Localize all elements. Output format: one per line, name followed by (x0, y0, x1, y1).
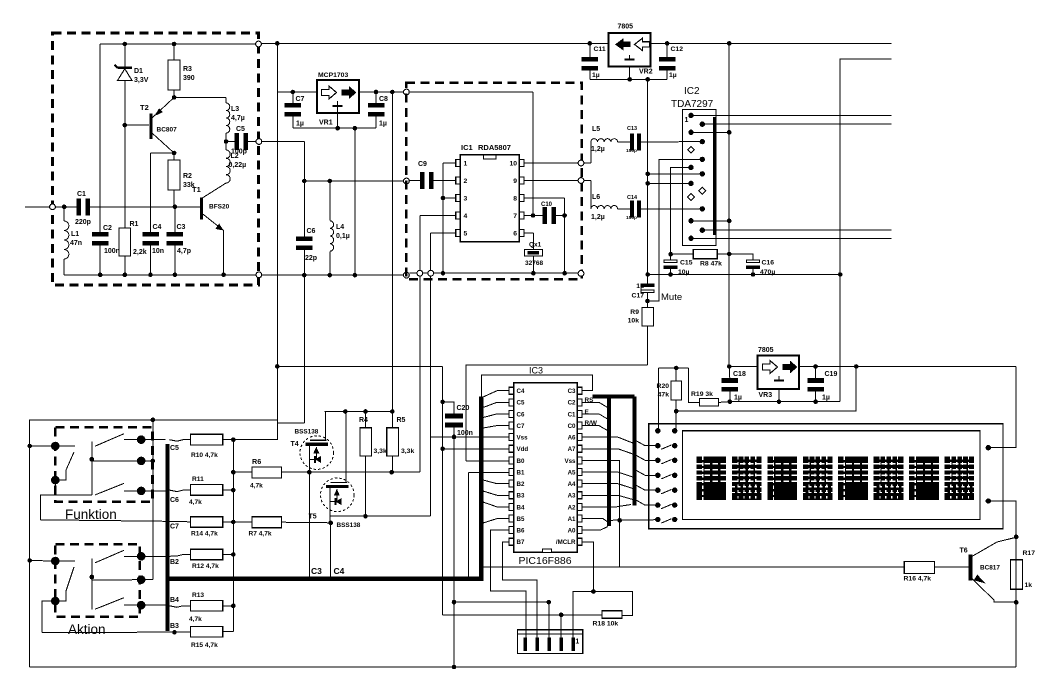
RF preamp dashed box (53, 33, 259, 285)
wire B5 fan (483, 519, 509, 523)
node LCD pin row 4 (655, 473, 660, 478)
svg-text:C6: C6 (307, 228, 316, 235)
svg-text:C9: C9 (418, 161, 427, 168)
capacitor C5 100p (226, 141, 235, 143)
wire LCD data row 5 (634, 484, 658, 490)
wire switch common vertical (152, 420, 154, 580)
resistor R3 390 (173, 44, 175, 60)
wire 7805 right to power stub (651, 42, 892, 44)
node RDA ground circle right (578, 271, 584, 277)
capacitor C17 1u (647, 275, 649, 284)
pin C6 IC3 (509, 410, 514, 417)
IC1 RDA5807 chip body (460, 155, 519, 242)
svg-text:C12: C12 (671, 46, 684, 53)
svg-text:C6: C6 (517, 411, 525, 418)
wire IC2 pin3 supply (691, 131, 729, 133)
wire A4 fan (582, 484, 633, 489)
pin B4 IC3 (509, 503, 514, 510)
svg-text:7805: 7805 (758, 347, 774, 354)
resistor R8 47k (671, 253, 694, 255)
pin 6 IC2 (700, 157, 705, 162)
crystal Qx1 32768 (524, 250, 542, 257)
node input terminal (50, 204, 56, 210)
pin 14 IC2 (700, 228, 705, 233)
svg-text:3,3V: 3,3V (134, 77, 149, 84)
pin A3 IC3 (577, 492, 582, 499)
svg-text:A4: A4 (568, 481, 576, 488)
svg-text:Vss: Vss (517, 435, 529, 442)
wire T2 base (125, 124, 149, 126)
wire C6 fan (483, 414, 509, 418)
svg-text:C13: C13 (627, 126, 637, 132)
pin B7 IC3 (509, 538, 514, 545)
resistor R20 47k (675, 368, 677, 381)
svg-text:Vss: Vss (564, 458, 576, 465)
microcontroller IC3 PIC16F886 (514, 383, 578, 553)
node LCD backlight cathode (986, 498, 991, 503)
wire bottom ground rail (30, 666, 1017, 668)
pin C7 IC3 (509, 422, 514, 429)
svg-text:3,3k: 3,3k (374, 448, 387, 455)
svg-text:C4: C4 (153, 224, 162, 231)
resistor R6 4,7k (233, 471, 252, 473)
svg-text:1,2µ: 1,2µ (591, 214, 605, 221)
pin 10 IC1 (519, 160, 524, 167)
svg-text:4,7k: 4,7k (189, 616, 202, 623)
pin B3 IC3 (509, 492, 514, 499)
svg-text:MCP1703: MCP1703 (318, 72, 348, 79)
pin 15 IC2 (688, 236, 693, 241)
svg-text:A6: A6 (568, 435, 576, 442)
svg-text:1µ: 1µ (296, 121, 304, 128)
wire IC2 pin6 mute (648, 159, 703, 301)
wire pin6 to crystal (524, 232, 534, 234)
svg-text:R10 4,7k: R10 4,7k (191, 452, 218, 459)
wire Aktion feed (30, 560, 56, 563)
wire bundle RS E RW trunk (593, 394, 635, 398)
svg-text:R20: R20 (657, 383, 670, 390)
wire 5V to ICSP pin2 (443, 614, 602, 616)
resistor R19 3k (688, 368, 699, 402)
svg-text:T2: T2 (140, 103, 149, 112)
pin 13 IC2 (688, 218, 693, 223)
wire C7 fan (483, 426, 509, 428)
wire A5 fan (582, 472, 633, 477)
wire A1 fan (582, 519, 610, 524)
node ground exit circle left box (256, 272, 262, 278)
svg-text:1: 1 (464, 161, 468, 168)
wire pin4 SDA (420, 215, 456, 217)
node C5 output circle (256, 139, 262, 145)
svg-text:4,7p: 4,7p (177, 248, 191, 255)
svg-text:B1: B1 (517, 469, 525, 476)
transistor T2 BC807 (149, 114, 152, 140)
svg-text:C14: C14 (627, 195, 638, 201)
pin 6 IC1 (519, 230, 524, 237)
capacitor C1 220p (76, 198, 81, 215)
wire C1 to T1 base (90, 206, 200, 208)
svg-text:A1: A1 (568, 516, 576, 523)
svg-text:R2: R2 (183, 173, 192, 180)
wire E fan (582, 414, 607, 419)
wire B7 to ICSP pin4 (503, 542, 538, 638)
wire A7 fan (582, 449, 633, 454)
wire keypad pullup feed (233, 423, 277, 440)
svg-text:1: 1 (575, 639, 579, 646)
pin A4 IC3 (577, 480, 582, 487)
capacitor C8 1u (375, 92, 377, 103)
wire B2 fan (483, 480, 509, 484)
wire pin5 SCL (431, 232, 456, 234)
pin A2 IC3 (577, 503, 582, 510)
wire IC2 pin2 speaker out (702, 123, 891, 125)
svg-text:C4: C4 (517, 388, 525, 395)
svg-text:L5: L5 (592, 126, 600, 133)
svg-text:1µ: 1µ (669, 72, 677, 79)
svg-text:R/W: R/W (585, 420, 598, 427)
wire ground stub power connector (840, 59, 891, 402)
node LCD pin row 6 (655, 502, 660, 507)
svg-text:5: 5 (464, 231, 468, 238)
resistor R11 4,7k row C6 (141, 490, 165, 492)
svg-text:Aktion: Aktion (68, 622, 106, 637)
svg-text:T4: T4 (291, 441, 299, 448)
antenna input wire (25, 206, 49, 208)
pin 1 IC1 (456, 160, 461, 167)
wire A2 fan (582, 505, 631, 507)
svg-text:D1: D1 (134, 68, 143, 75)
resistor R17 1k (1010, 560, 1022, 590)
svg-text:C20: C20 (457, 405, 470, 412)
svg-text:7: 7 (513, 213, 517, 220)
transistor T5 BSS138 (321, 478, 355, 512)
svg-text:4,7k: 4,7k (189, 499, 202, 506)
capacitor C13 150p (618, 141, 630, 143)
wire VR1 input (277, 91, 317, 93)
svg-text:B2: B2 (517, 481, 525, 488)
resistor R16 4,7k (904, 562, 934, 574)
svg-text:BSS138: BSS138 (295, 429, 319, 436)
svg-text:4,7µ: 4,7µ (231, 115, 245, 122)
pin Vss IC3 (577, 457, 582, 464)
wire IC2 pin14 speaker out (702, 229, 891, 231)
svg-text:C3: C3 (311, 566, 322, 576)
wire SCL lower (331, 515, 431, 517)
svg-text:A3: A3 (568, 493, 576, 500)
pin A0 IC3 (577, 527, 582, 534)
wire ground to ICSP pin3 (454, 601, 549, 603)
inductor L5 1,2u (584, 162, 591, 164)
wire 3V3 rail down (391, 92, 393, 412)
wire input to C1 (56, 206, 77, 208)
svg-text:PIC16F886: PIC16F886 (519, 555, 572, 567)
pin 3 IC2 (688, 130, 693, 135)
connector ICSP (518, 630, 583, 654)
wire pin1 ground (443, 162, 456, 164)
wire ground to bottom rail (453, 437, 455, 667)
svg-text:2: 2 (464, 178, 468, 185)
wire backlight control (483, 566, 904, 568)
pin Vss IC3 (509, 434, 514, 441)
wire keypad trunk (165, 444, 169, 631)
wire T4 drain corner (325, 411, 326, 413)
wire B4 fan (483, 502, 509, 507)
switch box Funktion (55, 427, 152, 501)
svg-text:R12 4,7k: R12 4,7k (192, 563, 219, 570)
pin B5 IC3 (509, 515, 514, 522)
wire A6 fan (582, 437, 633, 443)
capacitor C19 1u (815, 367, 817, 379)
pin 9 IC1 (519, 177, 524, 184)
svg-text:TDA7297: TDA7297 (671, 99, 714, 110)
wire 5V feed horizontal (277, 365, 442, 367)
wire IC2 pin9 input gnd (648, 182, 691, 184)
inductor L2 0,22u (225, 142, 227, 151)
wire ground feed down to keypad (304, 275, 306, 423)
pin 5 IC1 (456, 230, 461, 237)
wire IC2 pin15 speaker out (691, 237, 892, 239)
resistor R7 4,7k (233, 521, 252, 523)
switch box Aktion (55, 544, 140, 617)
svg-text:B4: B4 (170, 597, 179, 604)
pin B0 IC3 (509, 457, 514, 464)
LCD display window (683, 431, 980, 520)
pin 8 IC1 (519, 195, 524, 202)
svg-text:32768: 32768 (525, 260, 543, 267)
wire ICSP pin1 MCLR (573, 592, 632, 638)
svg-text:R14 4,7k: R14 4,7k (191, 531, 218, 538)
svg-text:8: 8 (513, 196, 517, 203)
svg-text:1µ: 1µ (822, 395, 830, 402)
svg-text:C16: C16 (762, 260, 775, 267)
wire pin8 (524, 197, 565, 199)
pin C4 IC3 (509, 387, 514, 394)
zener diode D1 3,3V (124, 44, 126, 68)
wire analog ground drop (647, 79, 649, 274)
resistor R2 33k (172, 151, 177, 156)
wire LCD data row 4 (634, 469, 658, 475)
LCD character blocks (696, 457, 726, 500)
wire LCD cathode to T6 (988, 501, 1016, 667)
svg-text:Mute: Mute (661, 292, 682, 303)
svg-text:3: 3 (464, 196, 468, 203)
svg-text:B3: B3 (170, 623, 179, 630)
svg-text:R17: R17 (1023, 550, 1036, 557)
wire Funktion feed (30, 445, 56, 447)
svg-text:BFS20: BFS20 (209, 204, 230, 211)
wire Vss left (431, 436, 509, 438)
wire RDA ground rail (410, 272, 578, 274)
wire LCD contrast node (658, 367, 688, 369)
svg-text:R19 3k: R19 3k (691, 391, 713, 398)
svg-text:C8: C8 (379, 96, 388, 103)
wire B1 to keypad bus (468, 471, 509, 473)
svg-text:C7: C7 (517, 423, 525, 430)
svg-text:IC3: IC3 (529, 366, 543, 376)
wire pullup rail (232, 440, 234, 632)
resistor R15 4,7k row B3 (42, 631, 191, 634)
wire C5 fan (483, 402, 509, 407)
wire 5V top rail (262, 42, 590, 44)
node LCD pin row 2 (655, 443, 660, 448)
svg-text:R1: R1 (130, 221, 139, 228)
svg-text:1,2µ: 1,2µ (591, 146, 605, 153)
svg-text:L2: L2 (231, 153, 239, 160)
svg-text:B3: B3 (517, 493, 525, 500)
svg-text:1µ: 1µ (379, 121, 387, 128)
resistor R14 4,7k row C7 (41, 520, 183, 522)
svg-text:C10: C10 (541, 202, 553, 208)
pin 11 IC2 (688, 194, 695, 201)
pin B1 IC3 (509, 469, 514, 476)
capacitor C6 22p (303, 181, 305, 237)
svg-text:7805: 7805 (618, 24, 634, 31)
svg-text:10k: 10k (628, 318, 640, 325)
wire LCD gnd row (609, 519, 658, 522)
wire LCD data row 6 (634, 499, 658, 505)
inductor L6 1,2u (584, 180, 591, 182)
pin 10 IC2 (699, 187, 706, 194)
svg-text:R6: R6 (252, 457, 261, 466)
node 3V3 into RDA box (404, 89, 410, 95)
svg-text:C3: C3 (568, 388, 576, 395)
wire 12V rail (728, 43, 730, 366)
wire bundle data trunk (632, 396, 636, 505)
svg-text:1µ: 1µ (636, 283, 644, 290)
pin A1 IC3 (577, 515, 582, 522)
wire 5V to LCD right (988, 367, 1016, 448)
svg-text:C11: C11 (594, 46, 606, 53)
svg-text:A2: A2 (568, 504, 576, 511)
wire Funktion row3 below box (41, 480, 56, 520)
svg-text:R4: R4 (359, 417, 368, 424)
svg-text:B2: B2 (170, 559, 179, 566)
wire ground rail left box (64, 274, 259, 276)
wire Aktion row3 below box (42, 601, 55, 633)
svg-text:R3: R3 (183, 66, 192, 73)
wire keypad bundle to PIC (479, 397, 483, 581)
pin 2 IC2 (700, 122, 705, 127)
transistor T4 BSS138 (300, 436, 334, 470)
svg-text:10: 10 (509, 161, 517, 168)
pin A6 IC3 (577, 434, 582, 441)
regulator VR2 7805 (609, 33, 651, 66)
wire RW fan (582, 426, 607, 431)
svg-text:C4: C4 (334, 566, 345, 576)
svg-text:B4: B4 (517, 504, 525, 511)
svg-text:C1: C1 (568, 411, 576, 418)
pin C5 IC3 (509, 399, 514, 406)
svg-text:C3: C3 (177, 224, 186, 231)
svg-text:R9: R9 (630, 309, 639, 316)
svg-text:R5: R5 (397, 417, 406, 424)
svg-text:R13: R13 (192, 592, 204, 599)
pin A5 IC3 (577, 469, 582, 476)
svg-text:/MCLR: /MCLR (556, 539, 576, 546)
resistor R9 10k (647, 301, 649, 307)
svg-text:1µ: 1µ (734, 395, 742, 402)
node rail exit circle (256, 41, 262, 47)
transistor T1 BFS20 (200, 198, 203, 220)
wire LCD data row 3 (634, 454, 658, 460)
wire R3 to L3 (174, 96, 226, 98)
capacitor C14 150p (618, 208, 630, 210)
svg-text:BSS138: BSS138 (337, 522, 361, 529)
svg-text:22p: 22p (305, 255, 317, 262)
wire LCD gnd to backlight wire (619, 520, 621, 567)
node LCD pin row 1 (655, 428, 660, 433)
wire VR1 ground (337, 106, 339, 128)
pin 7 IC1 (519, 212, 524, 219)
svg-text:0,22µ: 0,22µ (229, 162, 247, 169)
svg-text:L1: L1 (71, 231, 79, 238)
capacitor C11 1u (589, 43, 591, 57)
svg-text:C1: C1 (77, 191, 86, 198)
svg-text:B0: B0 (517, 458, 525, 465)
capacitor C3 4,7p (174, 207, 176, 232)
node LCD pin row 7 (655, 517, 660, 522)
capacitor C10 (524, 215, 543, 217)
capacitor C4 10n (150, 153, 152, 232)
svg-text:VR3: VR3 (759, 392, 773, 399)
pin /MCLR IC3 (577, 538, 582, 545)
node ground into RDA box (404, 272, 410, 278)
svg-text:B6: B6 (517, 528, 525, 535)
svg-text:Funktion: Funktion (65, 507, 117, 522)
wire IC2 pin1 speaker out (691, 114, 892, 116)
wire B6 to ICSP pin5 (490, 530, 526, 637)
pin 9 IC2 (688, 181, 693, 186)
pin 12 IC2 (700, 206, 705, 211)
capacitor C20 100n (443, 402, 454, 414)
svg-text:C19: C19 (825, 371, 838, 378)
inductor L4 0,1u (329, 181, 331, 221)
capacitor C18 1u (728, 367, 731, 379)
wire A3 fan (582, 495, 633, 499)
svg-text:T6: T6 (960, 548, 968, 555)
svg-text:10n: 10n (152, 248, 164, 255)
svg-text:6: 6 (513, 231, 517, 238)
wire B0 mute stub (466, 460, 509, 462)
inductor L1 47n (63, 207, 65, 221)
svg-text:RDA5807: RDA5807 (478, 143, 511, 152)
node LCD pin row 3 (655, 458, 660, 463)
svg-text:VR2: VR2 (639, 69, 653, 76)
svg-text:A5: A5 (568, 469, 576, 476)
pin C0 IC3 (577, 422, 582, 429)
svg-text:150p: 150p (626, 148, 637, 154)
svg-text:47n: 47n (70, 240, 82, 247)
svg-text:0,1µ: 0,1µ (336, 233, 350, 240)
wire 12V to VR3 input (729, 366, 757, 368)
wire ground keypad route (277, 422, 304, 424)
node pin9 circle (578, 178, 584, 184)
wire A0 fan (582, 527, 608, 531)
svg-text:B7: B7 (517, 539, 525, 546)
wire VR1 output (359, 91, 403, 93)
pin A7 IC3 (577, 445, 582, 452)
wire C4 fan (483, 391, 509, 397)
svg-text:IC2: IC2 (684, 86, 700, 97)
wire B3 fan (483, 491, 509, 495)
svg-text:150p: 150p (626, 215, 637, 221)
wire VR3 output 5V (799, 366, 1016, 368)
svg-text:9: 9 (513, 178, 517, 185)
svg-text:C5: C5 (236, 126, 245, 133)
wire MCLR down (582, 542, 593, 592)
regulator VR3 7805 (758, 356, 799, 389)
node LCD pin row 5 (655, 488, 660, 493)
